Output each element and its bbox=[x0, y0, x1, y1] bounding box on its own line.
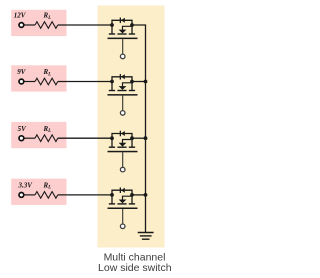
pink highlight box 5V bbox=[11, 122, 66, 148]
MOSFET Q3 with body diode bbox=[108, 131, 138, 172]
MOSFET Q4 with body diode bbox=[108, 187, 138, 228]
svg-text:12V: 12V bbox=[14, 12, 27, 20]
channel 4: 3.3V source and resistor RL bbox=[19, 192, 112, 199]
MOSFET Q1 with body diode bbox=[108, 18, 138, 59]
junction dot rail row 4 bbox=[144, 193, 148, 197]
channel 2: 9V source and resistor RL bbox=[19, 78, 112, 85]
svg-text:Low side switch: Low side switch bbox=[98, 262, 172, 274]
channel 3: 5V source and resistor RL bbox=[19, 135, 112, 142]
wire Q3 source to rail bbox=[132, 137, 146, 139]
junction dot rail row 2 bbox=[144, 80, 148, 84]
junction dot rail row 3 bbox=[144, 136, 148, 140]
ground symbol bbox=[138, 233, 154, 240]
pink highlight box 12V bbox=[11, 10, 66, 36]
svg-text:9V: 9V bbox=[17, 68, 27, 76]
wire Q1 source to rail and common rail down bbox=[132, 25, 146, 233]
svg-text:3.3V: 3.3V bbox=[18, 182, 34, 190]
yellow highlight band bbox=[98, 6, 165, 248]
MOSFET Q2 with body diode bbox=[108, 74, 138, 115]
pink highlight box 9V bbox=[11, 65, 66, 91]
channel 1: 12V source and resistor RL bbox=[19, 22, 112, 29]
wire Q2 source to rail bbox=[132, 81, 146, 83]
pink highlight box 3.3V bbox=[11, 179, 66, 205]
svg-text:5V: 5V bbox=[18, 125, 28, 133]
wire Q4 source to rail bbox=[132, 194, 146, 196]
